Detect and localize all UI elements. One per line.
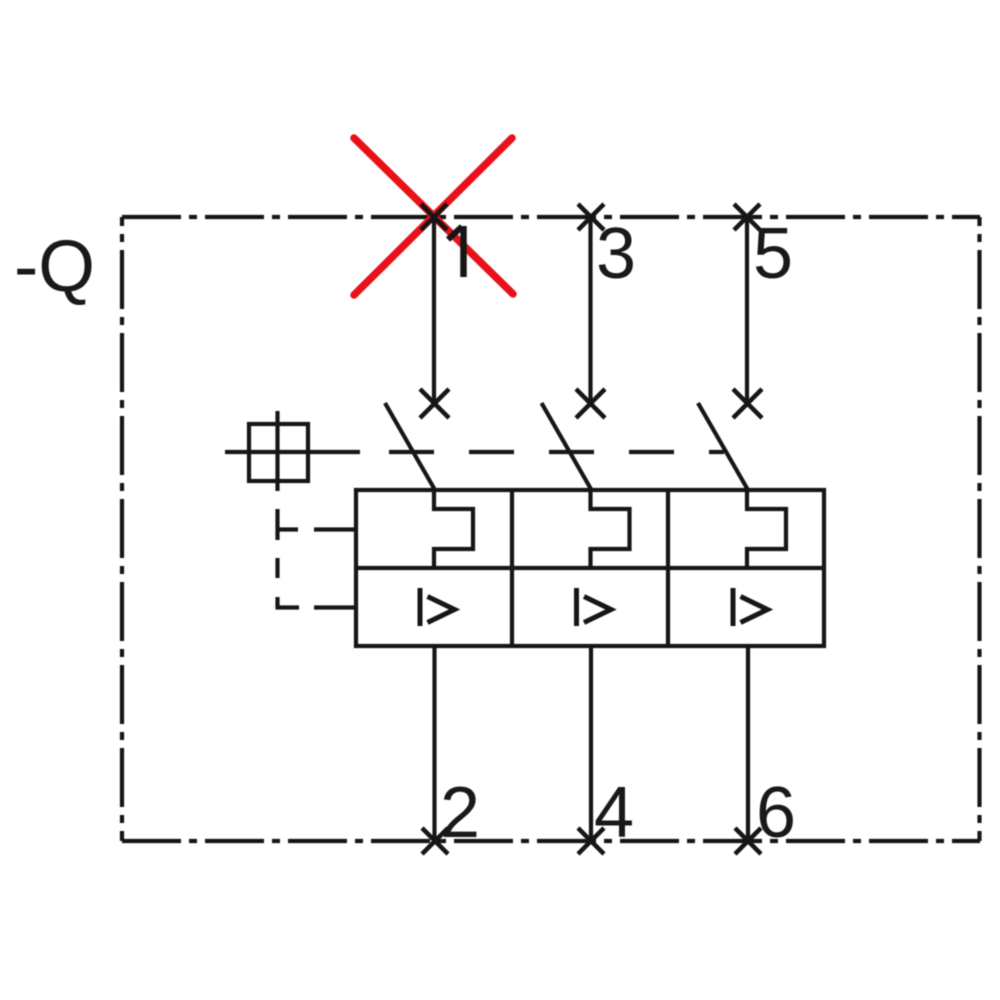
- linkage branch to thermal row: [277, 527, 356, 531]
- manual operator square: [249, 424, 308, 481]
- enclosure dash-dot border left: [120, 217, 124, 841]
- magnetic release I> pole2: [577, 588, 612, 626]
- wire pole2 top: [588, 217, 592, 403]
- switch blade pole3: [698, 403, 748, 490]
- trip unit row divider: [356, 566, 824, 570]
- svg-text:5: 5: [753, 214, 793, 294]
- thermal overload release pole1: [434, 490, 473, 568]
- trip unit cell divider 1: [510, 490, 514, 646]
- terminal 5 node (x on top border): [734, 204, 760, 230]
- operator linkage dashed vertical: [275, 509, 279, 608]
- trip unit cell divider 2: [666, 490, 670, 646]
- enclosure dash-dot border top: [122, 215, 980, 219]
- operator vertical axis line: [275, 411, 279, 491]
- enclosure dash-dot border bottom: [122, 839, 980, 843]
- contact cross pole1: [420, 389, 449, 418]
- terminal 1 node (x on top border): [421, 204, 447, 230]
- contact cross pole3: [733, 389, 762, 418]
- terminal 3 node (x on top border): [578, 204, 604, 230]
- operator horizontal axis line: [225, 450, 360, 454]
- terminal 4 node (x on bottom border): [578, 828, 604, 854]
- svg-text:4: 4: [594, 773, 634, 853]
- label 1: [448, 226, 464, 277]
- wire pole2 bottom: [589, 646, 593, 841]
- wire pole1 top: [432, 217, 436, 403]
- wire pole1 bottom: [432, 646, 436, 841]
- wire pole3 bottom: [746, 646, 750, 841]
- wire pole3 top: [745, 217, 749, 403]
- linkage branch to magnetic row: [276, 605, 357, 609]
- svg-text:6: 6: [756, 773, 796, 853]
- svg-text:-Q: -Q: [14, 226, 95, 307]
- enclosure dash-dot border right: [977, 217, 981, 841]
- thermal overload release pole2: [591, 490, 630, 568]
- terminal 2 node (x on bottom border): [422, 828, 448, 854]
- magnetic release I> pole1: [420, 588, 455, 626]
- svg-text:3: 3: [596, 214, 636, 294]
- thermal overload release pole3: [747, 490, 786, 568]
- magnetic release I> pole3: [733, 588, 768, 626]
- trip unit outer box: [356, 490, 824, 646]
- mechanical coupling dashed link (horizontal): [389, 450, 724, 454]
- svg-text:2: 2: [440, 773, 480, 853]
- terminal 6 node (x on bottom border): [735, 828, 761, 854]
- switch blade pole2: [542, 403, 592, 490]
- red cancellation cross over terminal 1: [354, 138, 513, 295]
- switch blade pole1: [385, 403, 435, 490]
- contact cross pole2: [576, 389, 605, 418]
